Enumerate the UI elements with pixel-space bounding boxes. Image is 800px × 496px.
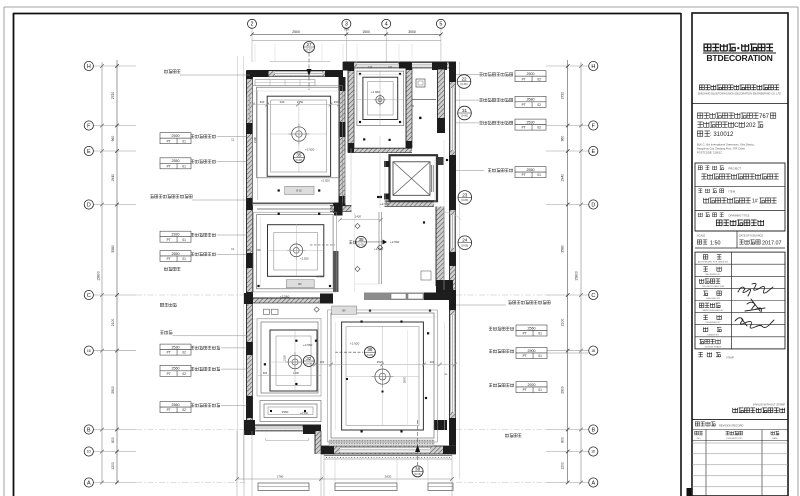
svg-text:300: 300 [247,249,252,252]
svg-text:2: 2 [251,22,254,28]
svg-text:BTDECORATION: BTDECORATION [706,53,772,63]
svg-text:B: B [591,427,595,433]
svg-text:CL: CL [444,372,448,376]
svg-text:2920: 2920 [172,134,180,138]
svg-text:REVISION RECORD: REVISION RECORD [719,424,743,428]
svg-text:2500: 2500 [292,30,300,34]
svg-text:1420: 1420 [355,215,362,219]
svg-text:02: 02 [182,372,186,376]
svg-text:SCALE: SCALE [697,235,706,238]
svg-text:INVALID WITHOUT STAMP: INVALID WITHOUT STAMP [753,403,785,407]
svg-text:01: 01 [182,139,186,143]
svg-text:600: 600 [263,371,268,375]
svg-text:02: 02 [537,77,541,81]
svg-text:(0-06): (0-06) [461,243,468,247]
svg-text:2550: 2550 [527,168,535,172]
svg-text:A: A [87,480,91,486]
svg-text:(0-09): (0-09) [295,158,302,162]
svg-text:(0-07): (0-07) [306,48,313,52]
svg-text:(0-09): (0-09) [358,243,365,247]
svg-text:1750: 1750 [297,100,304,104]
svg-text:01: 01 [182,257,186,261]
svg-text:2620: 2620 [385,475,392,479]
svg-text:PROJECT: PROJECT [729,167,742,171]
svg-text:B6: B6 [342,309,346,313]
svg-text:1D: 1D [591,450,596,454]
svg-text:2900: 2900 [528,349,536,353]
svg-text:A: A [591,480,595,486]
svg-text:PT: PT [523,332,527,336]
svg-text:300: 300 [257,249,262,252]
svg-text:1B: 1B [87,349,91,353]
svg-text:3000: 3000 [408,30,416,34]
svg-text:2560: 2560 [528,326,536,330]
svg-text:C1: C1 [231,138,235,142]
svg-text:960: 960 [111,136,115,142]
svg-text:H: H [87,64,91,70]
svg-text:DATE OF ISSUANCE: DATE OF ISSUANCE [739,235,763,238]
svg-text:+2.500: +2.500 [390,240,400,244]
svg-text:2680: 2680 [527,98,535,102]
svg-text:B-02: B-02 [296,189,302,193]
svg-text:01: 01 [538,388,542,392]
svg-text:PT: PT [523,388,527,392]
svg-text:E: E [591,149,595,155]
svg-text:PT: PT [167,408,171,412]
svg-text:POSTCODE: 310012: POSTCODE: 310012 [697,151,722,155]
svg-text:+2.590: +2.590 [316,275,325,279]
svg-text:(0-10): (0-10) [414,472,421,476]
svg-text:02: 02 [537,103,541,107]
svg-text:35: 35 [367,347,373,352]
svg-text:+2.680: +2.680 [371,90,380,94]
svg-text:2560: 2560 [172,403,180,407]
svg-text:15800: 15800 [575,271,579,281]
svg-text:H: H [591,64,595,70]
svg-text:02: 02 [182,408,186,412]
svg-text:ZHEJIANG BLUETOWN UNION DECORA: ZHEJIANG BLUETOWN UNION DECORATION ENGIN… [698,92,781,96]
svg-text:DATE: DATE [772,437,778,440]
svg-text:PROJECT DIRECTOR: PROJECT DIRECTOR [702,286,725,288]
svg-text:22: 22 [461,77,467,82]
svg-text:1200: 1200 [561,462,565,470]
svg-text:PT: PT [167,372,171,376]
svg-text:300: 300 [320,360,325,364]
svg-text:38: 38 [415,466,421,471]
svg-text:PT: PT [523,354,527,358]
svg-text:CHECKED BY: CHECKED BY [706,298,721,300]
svg-text:C: C [591,293,595,299]
svg-text:130: 130 [397,153,402,157]
svg-text:D: D [87,202,91,208]
svg-text:24: 24 [462,238,468,243]
svg-text:32: 32 [306,356,312,361]
svg-text:3580: 3580 [561,245,565,253]
svg-text:2870: 2870 [403,376,407,383]
svg-text:2720: 2720 [111,92,115,100]
svg-text:B6: B6 [298,282,302,286]
svg-text:DESIGNED BY: DESIGNED BY [706,322,721,324]
svg-text:DRAWING TITLE: DRAWING TITLE [729,214,750,218]
svg-text:(0-09): (0-09) [366,353,373,357]
svg-text:01: 01 [538,354,542,358]
svg-text:5: 5 [439,22,442,28]
svg-text:(0-06): (0-06) [461,198,468,202]
svg-text:01: 01 [182,238,186,242]
svg-text:PT: PT [522,126,526,130]
svg-text:2920: 2920 [172,233,180,237]
svg-text:2550: 2550 [172,159,180,163]
svg-text:DESIGN PHASE: DESIGN PHASE [705,345,722,348]
svg-text:(0-06): (0-06) [461,114,468,118]
svg-text:: 310012: : 310012 [710,132,734,138]
svg-text:23: 23 [462,192,468,197]
svg-text:Hangzhou City, Zhejiang Prov.,: Hangzhou City, Zhejiang Prov., P.R.China [697,147,745,151]
svg-text:2900: 2900 [111,386,115,394]
svg-text:2550: 2550 [172,252,180,256]
svg-text:PT: PT [522,173,526,177]
svg-text:REVIEWED BY: REVIEWED BY [705,274,721,276]
svg-text:3580: 3580 [111,245,115,253]
svg-text:2100: 2100 [111,319,115,327]
svg-text:B: B [87,427,91,433]
svg-text:PT: PT [167,351,171,355]
svg-text:DRAWN BY: DRAWN BY [707,333,719,336]
svg-text:2920: 2920 [528,383,536,387]
svg-text:NO.: NO. [697,438,701,440]
svg-text:2100: 2100 [561,319,565,327]
svg-text:130: 130 [388,65,393,69]
svg-text:2720: 2720 [561,92,565,100]
svg-text:BLK.C, Xixi International Gree: BLK.C, Xixi International Greentown, Xih… [697,143,755,147]
svg-text:1D: 1D [87,450,92,454]
svg-text:PT: PT [167,139,171,143]
svg-text:1B: 1B [591,349,595,353]
svg-text:(0-06): (0-06) [461,82,468,86]
svg-text:AUTHORIZED FOR ISSUE BY: AUTHORIZED FOR ISSUE BY [698,261,729,264]
svg-text:+2.920: +2.920 [321,179,330,183]
svg-text:ITEM: ITEM [729,190,736,194]
svg-text:800: 800 [561,437,565,443]
svg-text:31: 31 [462,108,468,113]
svg-text:1760: 1760 [277,475,284,479]
svg-text:C: C [87,293,91,299]
svg-text:767: 767 [759,114,770,120]
svg-text:2120: 2120 [283,355,287,361]
svg-text:2500: 2500 [527,72,535,76]
svg-text:130: 130 [368,65,373,69]
svg-text:1200: 1200 [111,462,115,470]
svg-text:+2.560: +2.560 [303,343,313,347]
svg-text:2520: 2520 [377,360,384,364]
svg-text:300: 300 [260,100,265,104]
svg-text:15800: 15800 [97,271,101,281]
svg-text:2180: 2180 [253,136,257,143]
svg-text:D: D [591,202,595,208]
svg-text:1500: 1500 [362,30,370,34]
svg-text:+2.560: +2.560 [300,411,309,415]
svg-text:200: 200 [430,360,435,364]
svg-text:+2.920: +2.920 [305,148,315,152]
svg-text:2900: 2900 [561,386,565,394]
svg-text:MAIN DESIGNED BY: MAIN DESIGNED BY [702,309,724,312]
svg-text:3: 3 [345,22,348,28]
svg-text:+2.920: +2.920 [350,342,360,346]
svg-text:800: 800 [111,437,115,443]
svg-text:PT: PT [522,77,526,81]
svg-text:(0-08): (0-08) [305,362,312,366]
svg-text:1:50: 1:50 [710,241,721,247]
svg-text:2530: 2530 [527,120,535,124]
svg-text:PT: PT [167,238,171,242]
svg-text:2560: 2560 [282,410,289,414]
svg-text:200: 200 [280,100,285,104]
svg-text:+2.560: +2.560 [280,295,290,299]
svg-text:01: 01 [538,332,542,336]
svg-text:960: 960 [561,136,565,142]
svg-text:2017.07: 2017.07 [762,241,782,247]
svg-text:PT: PT [167,257,171,261]
svg-text:1940: 1940 [111,174,115,182]
svg-text:2560: 2560 [172,367,180,371]
svg-text:PT: PT [522,103,526,107]
svg-text:202: 202 [746,123,757,129]
svg-text:01: 01 [182,164,186,168]
svg-text:1#: 1# [752,199,758,205]
svg-text:C: C [734,123,739,129]
svg-text:35: 35 [358,237,364,242]
svg-text:STAMP: STAMP [726,357,734,360]
svg-text:130: 130 [418,153,423,157]
svg-text:4: 4 [385,22,388,28]
svg-text:DESCRIPTION: DESCRIPTION [727,438,742,440]
svg-text:300: 300 [334,100,339,104]
svg-text:27: 27 [306,42,312,47]
svg-text:E: E [87,149,91,155]
svg-text:C1: C1 [231,247,235,251]
svg-text:02: 02 [182,351,186,355]
svg-text:+2.920: +2.920 [300,257,309,261]
svg-text:PT: PT [167,164,171,168]
svg-text:02: 02 [537,126,541,130]
svg-text:2530: 2530 [172,345,180,349]
svg-text:1940: 1940 [561,174,565,182]
svg-text:1400: 1400 [293,371,299,375]
svg-text:01: 01 [537,173,541,177]
svg-text:35: 35 [296,152,302,157]
